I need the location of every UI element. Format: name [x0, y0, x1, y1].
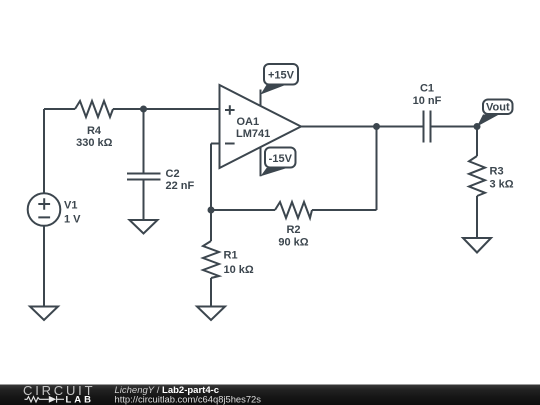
svg-text:90 kΩ: 90 kΩ: [278, 237, 308, 249]
svg-text:LAB: LAB: [66, 395, 95, 405]
wire: op-amp output to C1 left plate: [301, 126, 424, 128]
capacitor C2: [127, 174, 161, 180]
wire: V1 positive lead up to top net: [43, 109, 45, 193]
svg-text:Vout: Vout: [486, 101, 510, 113]
node: junction output / feedback: [373, 123, 380, 130]
resistor R1: [203, 241, 219, 278]
resistor R3: [469, 156, 485, 196]
wire: R1 top lead: [210, 210, 212, 241]
wire: top net from V1 corner to R4 left lead: [44, 108, 75, 110]
svg-text:R2: R2: [286, 224, 300, 236]
power flag -15V label box: [265, 148, 296, 168]
svg-text:V1: V1: [64, 199, 77, 211]
node: Vout junction: [474, 123, 481, 130]
svg-text:C2: C2: [166, 168, 180, 180]
ground (C2): [130, 220, 158, 234]
CircuitLab logo: resistor-diode squiggle: [25, 396, 65, 403]
svg-text:22 nF: 22 nF: [166, 180, 195, 192]
wire: R1 bottom lead to ground: [210, 278, 212, 307]
wire: C2 bottom lead to ground: [143, 180, 145, 220]
wire: feedback horizontal to R2 right lead: [312, 209, 377, 211]
svg-text:330 kΩ: 330 kΩ: [76, 137, 113, 149]
svg-text:1 V: 1 V: [64, 214, 81, 226]
svg-text:+15V: +15V: [268, 70, 295, 82]
wire: inverting input vertical down to node: [210, 144, 212, 211]
power flag -15V pennant: [261, 168, 288, 176]
power flag +15V stem: [260, 90, 262, 107]
power flag -15V stem: [260, 147, 262, 176]
net flag Vout pennant: [477, 115, 499, 127]
wire: R4 right lead to op-amp + input: [113, 108, 220, 110]
svg-text:10 kΩ: 10 kΩ: [224, 264, 254, 276]
svg-text:-15V: -15V: [269, 153, 293, 165]
svg-text:LM741: LM741: [236, 128, 270, 140]
op-amp OA1 - input marker: [225, 143, 235, 145]
svg-text:R1: R1: [224, 249, 238, 261]
wire: feedback vertical drop from output node: [376, 127, 378, 211]
wire: R2 left lead to inverting node: [211, 209, 275, 211]
wire: C1 right plate to Vout node: [431, 126, 478, 128]
ground (V1): [30, 307, 58, 321]
net flag Vout label box: [483, 100, 513, 115]
resistor R2: [275, 202, 312, 218]
node: junction R4 / C2 / op-amp + input: [140, 106, 147, 113]
wire: R3 bottom lead to ground: [476, 196, 478, 238]
ground (R3): [463, 238, 491, 253]
node: junction R2 / R1 / op-amp - input: [208, 207, 215, 214]
svg-text:http://circuitlab.com/c64q8j5h: http://circuitlab.com/c64q8j5hes72s: [115, 393, 262, 404]
svg-text:R3: R3: [490, 166, 504, 178]
svg-text:R4: R4: [87, 125, 102, 137]
footer bar: [0, 385, 540, 405]
wire: op-amp - input stub: [211, 143, 220, 145]
power flag +15V pennant: [261, 84, 289, 95]
ground (R1): [197, 307, 225, 321]
svg-text:10 nF: 10 nF: [413, 95, 442, 107]
wire: V1 negative lead to ground: [43, 226, 45, 307]
op-amp OA1 + input marker: [225, 105, 235, 115]
voltage source V1: [28, 193, 61, 226]
wire: Vout node down to R3: [476, 127, 478, 157]
svg-text:C1: C1: [420, 82, 434, 94]
svg-text:3 kΩ: 3 kΩ: [490, 179, 514, 191]
capacitor C1: [424, 111, 431, 143]
wire: C2 top lead from junction: [143, 109, 145, 173]
power flag +15V label box: [264, 64, 298, 85]
op-amp OA1 body: [220, 85, 302, 168]
svg-text:OA1: OA1: [237, 116, 260, 128]
resistor R4: [75, 101, 113, 117]
